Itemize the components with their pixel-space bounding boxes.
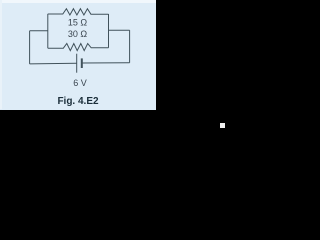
svg-text:Fig. 4.E2: Fig. 4.E2 [57,96,99,107]
svg-text:6 V: 6 V [73,78,87,88]
svg-text:30 Ω: 30 Ω [68,29,88,39]
svg-text:15 Ω: 15 Ω [68,17,88,27]
